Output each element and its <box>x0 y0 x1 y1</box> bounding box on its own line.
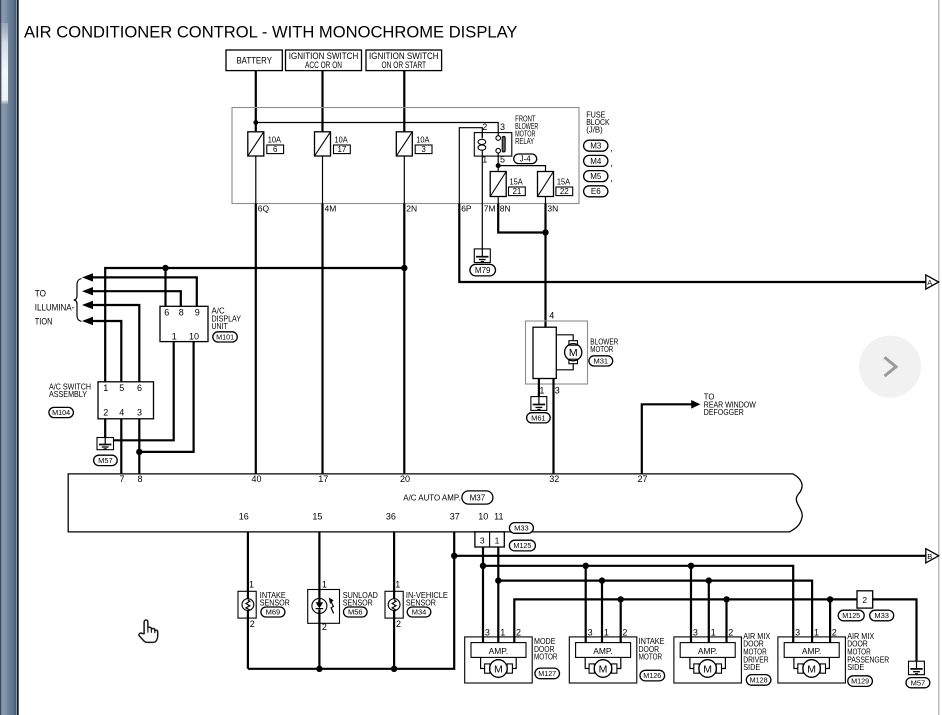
wire motor1 pin2 up to bus line4 <box>514 599 857 642</box>
wire junction to fuse 21 <box>497 166 499 172</box>
door motor mode door motor <box>465 637 533 683</box>
svg-text:2: 2 <box>482 122 487 132</box>
relay contact <box>496 136 505 153</box>
svg-text:B: B <box>927 552 932 561</box>
svg-text:6P: 6P <box>461 203 472 213</box>
connector oval M69 <box>261 607 285 617</box>
junction bus4 node motor2 <box>618 596 624 602</box>
svg-text:2: 2 <box>250 619 255 629</box>
fuse number box 17 for F17 <box>334 145 351 154</box>
svg-text:15A: 15A <box>557 176 570 186</box>
wire 3N fuse22 to blower pin 4 <box>544 204 546 328</box>
fuse F3 10A <box>396 132 412 156</box>
sunload sensor M56 <box>308 590 340 624</box>
A/C display unit box <box>160 306 208 341</box>
svg-text:SENSOR: SENSOR <box>343 598 373 608</box>
svg-text:ILLUMINA-: ILLUMINA- <box>35 303 75 313</box>
svg-text:3: 3 <box>588 627 593 637</box>
svg-text:ON OR START: ON OR START <box>382 60 427 71</box>
wire bus2 drop motor3 pin3 <box>690 566 692 643</box>
wire 4M fuse17 to amp pin 17 <box>321 204 323 474</box>
svg-text:M: M <box>807 664 816 676</box>
ground symbol M57 right box <box>909 661 925 675</box>
svg-text:E6: E6 <box>591 187 601 196</box>
svg-text:5: 5 <box>500 154 505 164</box>
svg-text:2: 2 <box>862 595 867 605</box>
arrow A (to next page) <box>926 275 939 289</box>
svg-text:6: 6 <box>273 145 278 154</box>
connector M33/M125 cells 3|1 <box>475 532 504 547</box>
wire amp pin37 down to sensor bus <box>248 532 454 669</box>
connector oval M104 <box>49 407 74 417</box>
svg-text:M: M <box>494 664 503 676</box>
relay front blower motor relay box <box>474 133 512 157</box>
wire amp pin27 to rear window defogger <box>642 404 692 474</box>
wire blower pin3 to amp pin 32 <box>552 379 554 474</box>
fuse number box 22 for F22 <box>556 187 573 196</box>
svg-text:SENSOR: SENSOR <box>260 598 290 608</box>
arrow to illumination 2 <box>82 287 181 306</box>
svg-text:1: 1 <box>395 580 400 590</box>
wire ignition ACC to fuse 17 <box>321 71 323 132</box>
relay coil <box>478 133 486 157</box>
wire display pin10 to switch pin3 wire <box>139 342 193 452</box>
svg-text:16: 16 <box>239 511 249 521</box>
door motor air mix door motor driver side <box>674 637 742 683</box>
svg-text:ACC OR ON: ACC OR ON <box>305 60 342 71</box>
svg-text:3: 3 <box>137 408 142 418</box>
wire battery to fuse block <box>255 71 257 132</box>
left scrollbar strip <box>0 0 19 715</box>
junction bus4 node motor3 <box>723 596 729 602</box>
svg-text:2: 2 <box>322 622 327 632</box>
svg-text:8: 8 <box>179 308 184 318</box>
svg-text:M3: M3 <box>590 142 602 151</box>
wire fuse 17 to 4M <box>322 156 324 204</box>
svg-text:AMP.: AMP. <box>802 646 822 656</box>
svg-text:3: 3 <box>555 386 560 396</box>
svg-text:TO: TO <box>35 289 46 299</box>
svg-text:MOTOR: MOTOR <box>534 652 558 662</box>
svg-text:1: 1 <box>500 627 505 637</box>
wire relay coil pin1 to M79 (7M) <box>481 156 483 249</box>
door motor air mix door motor passenger side <box>778 637 846 683</box>
intake sensor M69 <box>238 591 256 618</box>
svg-text:,: , <box>610 173 613 183</box>
svg-text:M37: M37 <box>470 493 486 502</box>
svg-text:ASSEMBLY: ASSEMBLY <box>49 389 87 399</box>
svg-text:8: 8 <box>137 474 142 484</box>
connector oval M127 <box>535 668 560 679</box>
wire switch pin4 to amp pin 7 <box>120 419 122 474</box>
mouse cursor (hand) <box>139 620 158 642</box>
blower motor outer box <box>526 321 588 384</box>
svg-text:10: 10 <box>478 511 488 521</box>
svg-text:M125: M125 <box>842 611 860 620</box>
svg-text:11: 11 <box>494 511 503 521</box>
svg-text:M: M <box>703 664 712 676</box>
fuse F17 10A <box>315 132 331 156</box>
wire bus2 drop motor2 pin3 <box>585 566 587 643</box>
svg-text:M57: M57 <box>911 678 926 687</box>
svg-text:M129: M129 <box>851 677 869 686</box>
svg-text:SENSOR: SENSOR <box>406 598 436 608</box>
svg-text:15A: 15A <box>510 176 523 186</box>
wire 8N fuse21 to 3N junction <box>498 204 545 233</box>
svg-text:27: 27 <box>637 474 647 484</box>
svg-text:AMP.: AMP. <box>698 646 718 656</box>
connector oval M129 <box>848 676 873 687</box>
svg-text:3N: 3N <box>547 203 558 213</box>
svg-text:10A: 10A <box>268 134 281 144</box>
fuse block J/B outline <box>232 108 579 204</box>
wire display pin1 to M57 ground <box>114 342 174 441</box>
junction bus2 node motor3 <box>688 563 694 569</box>
svg-text:2: 2 <box>103 408 108 418</box>
wire bus2 drop motor1 pin3 <box>482 566 484 643</box>
svg-text:MOTOR: MOTOR <box>639 652 663 662</box>
arrow B (to next page) <box>926 549 939 563</box>
blower motor M symbol <box>556 335 582 370</box>
svg-text:3: 3 <box>421 145 426 154</box>
svg-text:M33: M33 <box>514 524 529 533</box>
right page border <box>938 0 939 715</box>
wire 2N fuse3 to amp pin 20 <box>403 204 405 474</box>
wire intake sensor pin2 to bus <box>247 610 249 668</box>
svg-text:AMP.: AMP. <box>593 646 613 656</box>
svg-text:M69: M69 <box>266 608 281 617</box>
svg-text:UNIT: UNIT <box>212 321 228 331</box>
wire relay pin5 to fuse junction <box>497 153 499 166</box>
svg-text:A/C AUTO AMP.: A/C AUTO AMP. <box>403 492 460 502</box>
next page chevron button <box>859 336 921 398</box>
fuse F21 15A <box>490 172 506 197</box>
arrow to rear window defogger <box>691 400 700 409</box>
svg-text:M56: M56 <box>348 608 363 617</box>
connector oval M61 <box>527 413 551 423</box>
svg-text:7: 7 <box>119 474 124 484</box>
wire bus4 drop motor3 pin2 <box>725 599 727 642</box>
connector oval M57 left <box>94 455 118 465</box>
svg-text:M101: M101 <box>216 333 234 342</box>
connector oval M33 bottom <box>870 610 894 621</box>
wire relay coil pin 2 to 6P <box>459 128 482 204</box>
svg-text:40: 40 <box>251 474 261 484</box>
wire switch pin1 up and across to 2N <box>105 268 404 382</box>
connector oval M4 <box>584 155 608 166</box>
A/C switch assembly box <box>98 382 154 419</box>
wire amp pin11 through connector <box>497 532 499 581</box>
wire fuse 6 to 6Q <box>255 156 257 204</box>
junction in-vehicle bus node <box>391 666 397 672</box>
svg-text:17: 17 <box>318 474 328 484</box>
svg-text:1: 1 <box>814 627 819 637</box>
wire battery feed to relay pin 3 <box>256 123 498 136</box>
svg-text:2: 2 <box>396 619 401 629</box>
svg-text:3: 3 <box>485 627 490 637</box>
svg-text:M126: M126 <box>643 671 661 680</box>
wire switch pin2 to ground M57 <box>104 419 106 438</box>
svg-text:M33: M33 <box>874 611 889 620</box>
junction sunload bus node <box>316 666 322 672</box>
wire in-vehicle sensor pin2 to bus <box>393 610 395 668</box>
battery box <box>226 50 282 71</box>
ground symbol M57 left box <box>97 438 114 450</box>
wire bus line2 (pin10) to motor4 pin3 <box>483 566 793 643</box>
connector box 2 (M125/M33) <box>857 591 873 608</box>
svg-text:M79: M79 <box>475 266 491 275</box>
connector oval M101 <box>213 332 238 342</box>
connector oval M79 <box>470 264 496 276</box>
wire fuse 3 to 2N <box>403 156 405 204</box>
junction bus3 node motor1 <box>495 577 501 583</box>
svg-text:1: 1 <box>495 536 500 546</box>
ignition switch ACC or ON box <box>286 50 362 71</box>
svg-text:3: 3 <box>795 627 800 637</box>
svg-text:M128: M128 <box>750 676 768 685</box>
svg-text:(J/B): (J/B) <box>586 125 603 135</box>
brace for illumination arrows <box>74 279 82 322</box>
wire bus3 drop motor1 pin1 <box>497 581 499 643</box>
blower resistor block <box>533 327 556 378</box>
svg-text:SIDE: SIDE <box>847 662 864 672</box>
svg-text:TION: TION <box>35 316 53 326</box>
svg-text:J-4: J-4 <box>520 155 532 164</box>
wire display pin 6 drop <box>164 268 166 306</box>
fuse number box 6 for F6 <box>267 145 284 154</box>
connector oval M126 <box>640 670 665 681</box>
wire pin37 to arrow B <box>454 555 926 557</box>
svg-text:1: 1 <box>539 386 544 396</box>
svg-text:M104: M104 <box>52 408 70 417</box>
A/C auto amp M37 box (torn right edge) <box>68 474 802 532</box>
arrow to illumination 4 <box>82 317 121 382</box>
svg-text:BATTERY: BATTERY <box>236 56 272 67</box>
wire sunload sensor pin2 to bus <box>318 609 320 669</box>
junction bus3 node motor3 <box>706 577 712 583</box>
svg-text:36: 36 <box>386 511 396 521</box>
connector oval M33 top <box>509 523 533 534</box>
connector oval M57 right <box>906 678 930 688</box>
svg-text:9: 9 <box>195 308 200 318</box>
junction 8N-3N junction <box>542 229 548 235</box>
svg-text:M61: M61 <box>531 414 546 423</box>
svg-text:6: 6 <box>164 308 169 318</box>
svg-text:37: 37 <box>450 511 460 521</box>
wire fuse 22 to 3N <box>545 197 547 204</box>
connector oval M31 <box>589 356 613 366</box>
junction pin37 node B <box>451 553 457 559</box>
arrow to illumination 1 <box>82 273 197 306</box>
svg-text:1: 1 <box>711 627 716 637</box>
wire bus line3 (pin11) to motor4 pin1 <box>498 581 812 643</box>
svg-text:8N: 8N <box>500 203 511 213</box>
svg-text:20: 20 <box>400 474 410 484</box>
fuse F6 10A <box>248 132 264 156</box>
svg-text:M34: M34 <box>412 608 427 617</box>
svg-text:M4: M4 <box>590 157 602 166</box>
svg-text:1: 1 <box>604 627 609 637</box>
wire bus4 drop motor2 pin2 <box>620 599 622 642</box>
svg-text:22: 22 <box>560 187 569 196</box>
fuse F22 15A <box>538 172 554 197</box>
fuse number box 3 for F3 <box>415 145 432 154</box>
wire junction to fuse 22 <box>498 166 545 172</box>
wire fuse 21 to 8N <box>497 197 499 204</box>
connector oval J-4 <box>514 154 537 164</box>
arrow to illumination 3 <box>82 301 139 382</box>
wire switch pin3 to amp pin 8 <box>138 419 140 474</box>
svg-text:10A: 10A <box>335 134 348 144</box>
svg-text:3: 3 <box>693 627 698 637</box>
svg-text:DEFOGGER: DEFOGGER <box>704 407 744 417</box>
svg-text:4: 4 <box>119 408 124 418</box>
junction bus2 node motor2 <box>583 563 589 569</box>
wire bus line4 from box2 to M57 ground <box>873 599 917 661</box>
svg-text:2: 2 <box>516 627 521 637</box>
wire amp pin10 through connector <box>482 532 484 566</box>
svg-text:1: 1 <box>482 154 487 164</box>
svg-text:10A: 10A <box>416 134 429 144</box>
svg-text:2: 2 <box>832 627 837 637</box>
svg-text:AIR CONDITIONER CONTROL - WITH: AIR CONDITIONER CONTROL - WITH MONOCHROM… <box>24 22 518 41</box>
junction bus2 node motor1 <box>480 563 486 569</box>
svg-text:21: 21 <box>512 187 521 196</box>
door motor intake door motor <box>569 637 637 683</box>
svg-text:2N: 2N <box>406 203 417 213</box>
ignition switch ON or START box <box>366 50 442 71</box>
svg-text:1: 1 <box>249 580 254 590</box>
wire bus3 drop motor2 pin1 <box>601 581 603 643</box>
connector oval M125 top <box>509 540 535 551</box>
svg-text:32: 32 <box>549 474 559 484</box>
svg-text:15: 15 <box>312 511 322 521</box>
svg-text:7M: 7M <box>484 203 496 213</box>
svg-text:M57: M57 <box>98 456 113 465</box>
svg-text:M: M <box>599 664 608 676</box>
wire bus4 drop motor4 pin2 <box>829 599 831 642</box>
wire 6P to arrow A <box>459 204 926 283</box>
svg-text:AMP.: AMP. <box>489 646 509 656</box>
svg-text:4M: 4M <box>325 203 337 213</box>
svg-text:,: , <box>610 158 613 168</box>
svg-text:6Q: 6Q <box>258 203 270 213</box>
svg-text:1: 1 <box>322 580 327 590</box>
svg-text:4: 4 <box>549 310 554 320</box>
wire ignition START to fuse 3 <box>403 71 405 132</box>
connector oval M56 <box>344 607 368 617</box>
svg-text:5: 5 <box>119 383 124 393</box>
junction battery feed node <box>253 120 258 125</box>
svg-text:M5: M5 <box>590 172 602 181</box>
connector oval E6 <box>584 186 608 197</box>
svg-text:10: 10 <box>189 331 199 341</box>
ground symbol M79 box <box>474 249 490 263</box>
junction display pin6 node <box>162 265 168 271</box>
svg-text:2: 2 <box>728 627 733 637</box>
wire amp pin16 to intake sensor <box>247 532 249 599</box>
junction bus3 node motor2 <box>599 577 605 583</box>
wire amp pin15 to sunload sensor <box>318 532 320 603</box>
connector oval M5 <box>584 171 608 182</box>
in-vehicle sensor M34 <box>385 591 403 618</box>
wire blower pin1 to M61 <box>538 379 540 397</box>
svg-text:1: 1 <box>103 383 108 393</box>
connector oval M125 bottom <box>838 610 864 621</box>
wire bus3 drop motor3 pin1 <box>708 581 710 643</box>
svg-text:1: 1 <box>172 331 177 341</box>
svg-text:M: M <box>569 347 578 359</box>
junction pin10 tap on switch pin3 wire <box>136 449 142 455</box>
junction 2N tap node <box>401 265 407 271</box>
svg-text:2: 2 <box>622 627 627 637</box>
junction relay pin5 node <box>496 163 501 168</box>
svg-text:SIDE: SIDE <box>743 662 760 672</box>
ground symbol M61 box <box>531 397 547 411</box>
svg-text:RELAY: RELAY <box>515 136 534 146</box>
svg-text:6: 6 <box>137 383 142 393</box>
svg-text:MOTOR: MOTOR <box>590 344 613 354</box>
connector oval M34 <box>407 607 431 617</box>
wire 6Q fuse6 to amp pin 40 <box>255 204 257 474</box>
svg-text:,: , <box>610 143 613 153</box>
connector oval M128 <box>746 675 771 686</box>
svg-text:3: 3 <box>480 536 485 546</box>
svg-text:A: A <box>927 278 932 287</box>
svg-text:M125: M125 <box>513 541 531 550</box>
connector oval M37 <box>462 491 493 504</box>
svg-text:M31: M31 <box>594 357 609 366</box>
svg-text:3: 3 <box>500 122 505 132</box>
connector oval M3 <box>584 140 608 151</box>
junction bus4 node motor4 <box>827 596 833 602</box>
fuse number box 21 for F21 <box>509 187 526 196</box>
svg-text:17: 17 <box>337 145 346 154</box>
wire amp pin36 to in-vehicle sensor <box>393 532 395 599</box>
svg-text:M127: M127 <box>538 669 556 678</box>
